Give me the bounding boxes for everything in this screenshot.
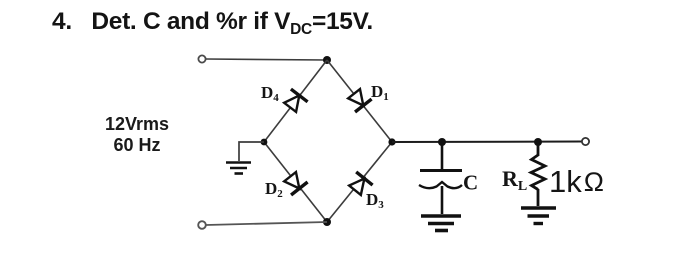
- diode D2: [282, 170, 308, 195]
- svg-text:D1: D1: [371, 82, 389, 103]
- capacitor C bottom plate: [419, 182, 462, 188]
- title text: [52, 8, 373, 36]
- ground below C: [421, 216, 461, 231]
- wire arm upper-right: [327, 60, 392, 142]
- wire to ground: [239, 142, 264, 161]
- wire arm lower-left: [264, 142, 327, 222]
- terminal right: [582, 138, 589, 145]
- wire capacitor stub: [441, 142, 444, 170]
- resistor RL zigzag: [531, 155, 545, 190]
- node left junction: [261, 139, 268, 146]
- svg-text:1kΩ: 1kΩ: [549, 164, 604, 199]
- wire resistor stub: [537, 142, 540, 156]
- svg-text:D4: D4: [261, 83, 279, 104]
- ground bridge-left: [226, 163, 251, 174]
- wire resistor to ground: [537, 189, 540, 206]
- diode D3: [347, 172, 373, 197]
- ground below RL: [521, 208, 556, 224]
- wire output: [392, 141, 582, 144]
- diode D1: [346, 87, 372, 112]
- node top junction: [323, 56, 331, 64]
- wire arm lower-right: [327, 142, 392, 222]
- node bottom junction: [323, 218, 331, 226]
- wire capacitor to ground: [441, 186, 444, 214]
- svg-text:D3: D3: [366, 190, 384, 211]
- capacitor C top plate: [420, 169, 462, 172]
- terminal top-left: [198, 55, 205, 62]
- wire arm upper-left: [264, 60, 327, 142]
- diode D4: [282, 89, 308, 114]
- terminal bottom-left: [198, 221, 206, 229]
- source label 12Vrms 60 Hz: [84, 114, 190, 155]
- svg-text:D2: D2: [265, 179, 283, 200]
- node capacitor junction: [438, 138, 446, 146]
- node right junction: [388, 138, 395, 145]
- wire bottom: [206, 222, 327, 225]
- node resistor junction: [534, 138, 542, 146]
- svg-text:RL: RL: [502, 166, 527, 194]
- wire top: [206, 59, 327, 60]
- svg-text:C: C: [463, 171, 478, 195]
